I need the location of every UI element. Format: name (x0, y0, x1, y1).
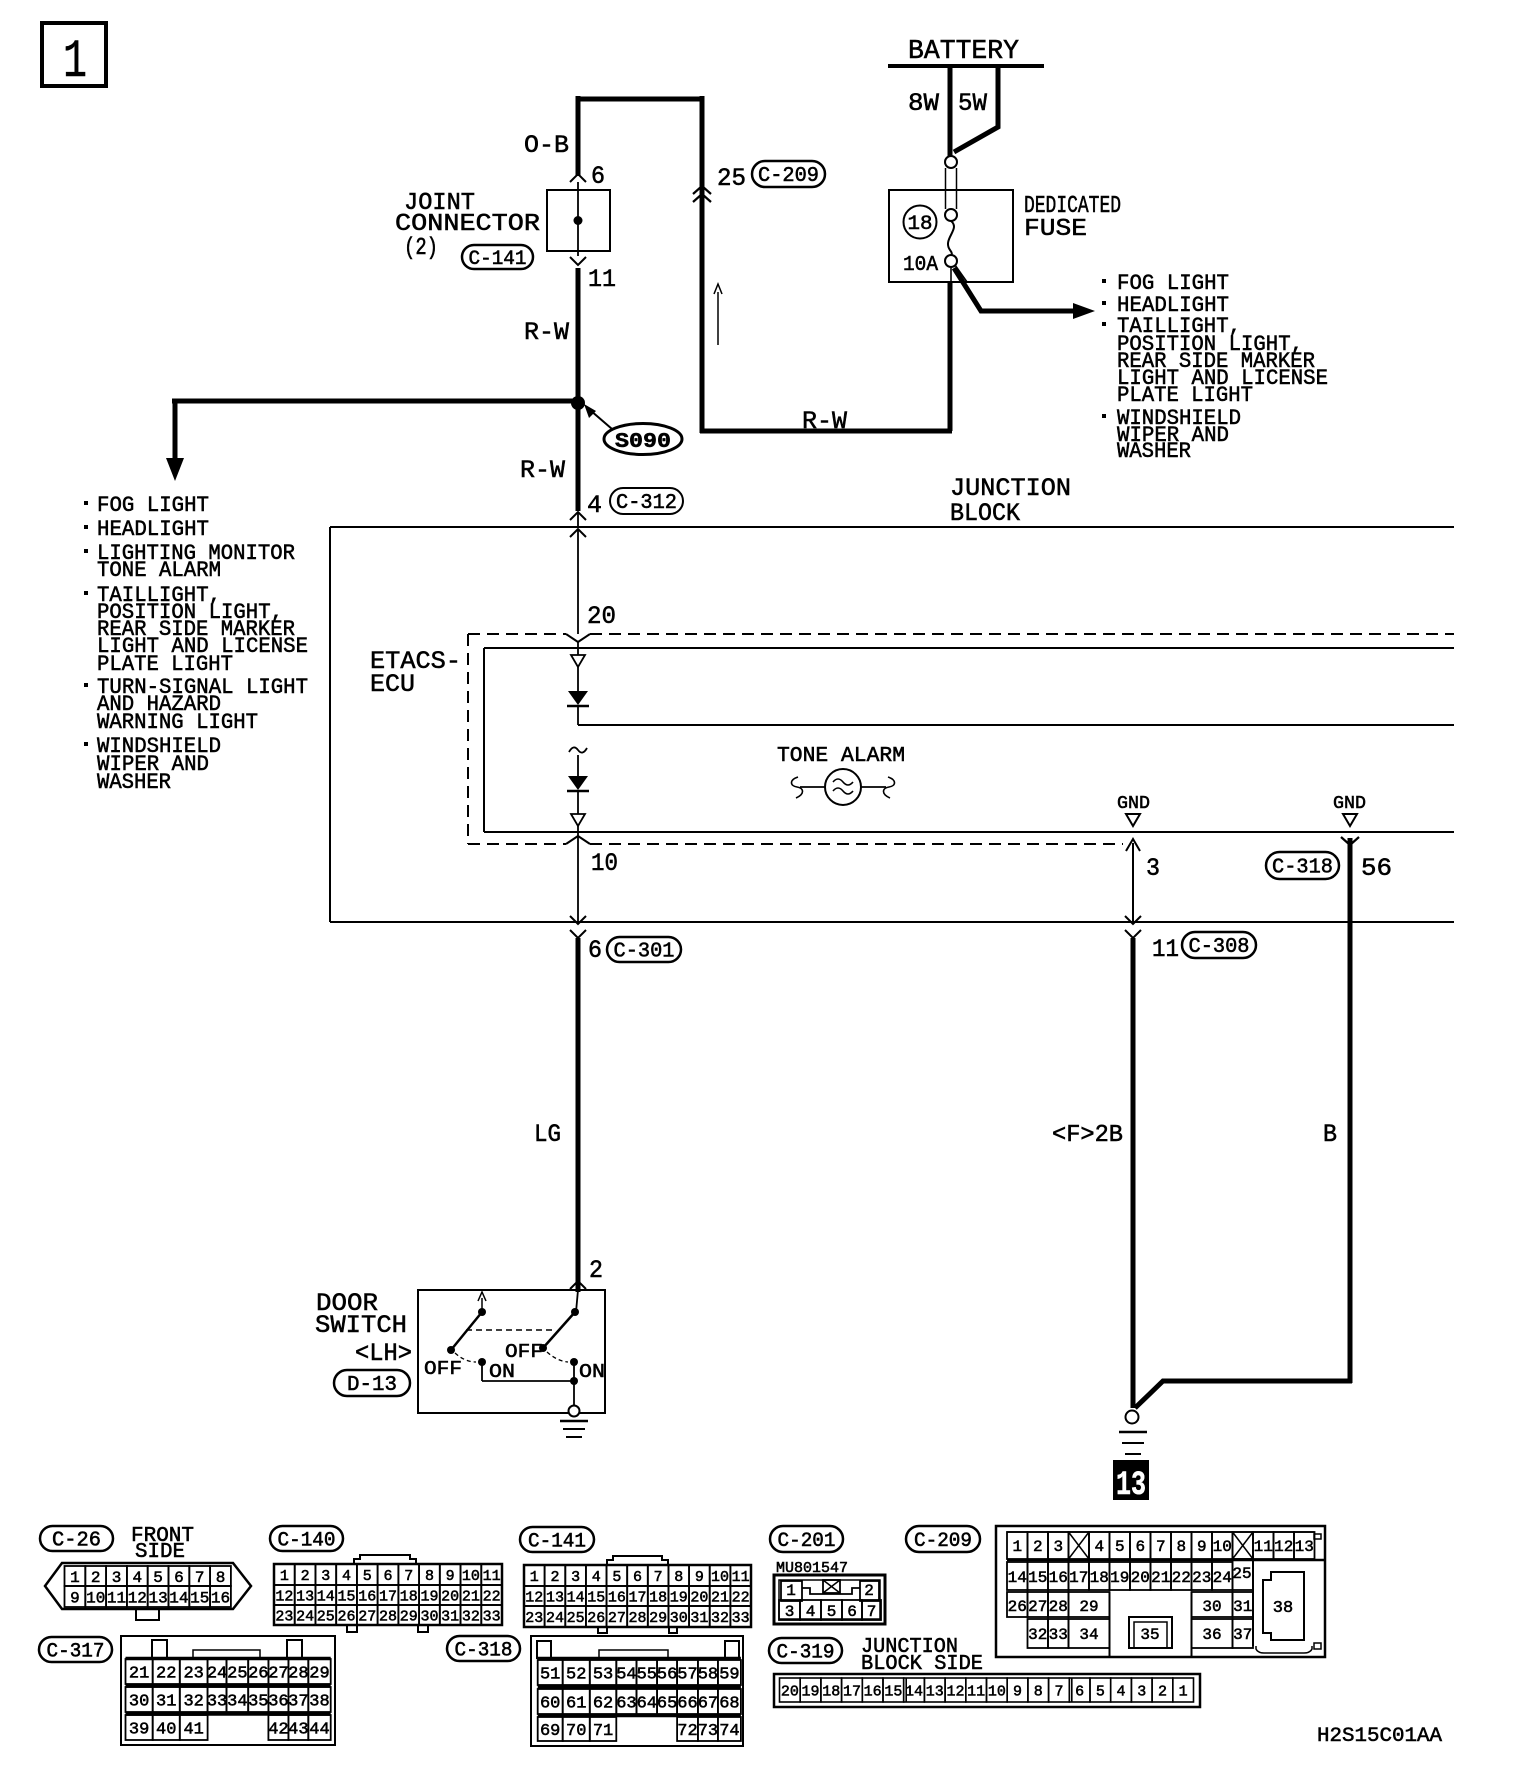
svg-text:6: 6 (633, 1569, 642, 1586)
svg-text:13: 13 (1116, 1467, 1146, 1505)
svg-text:29: 29 (649, 1610, 667, 1627)
svg-text:56: 56 (657, 1666, 677, 1685)
svg-text:14: 14 (317, 1588, 335, 1605)
svg-text:32: 32 (711, 1610, 729, 1627)
door switch contact arm 1 (424, 1292, 515, 1383)
connector capsule D-13 (334, 1370, 410, 1396)
svg-text:BLOCK SIDE: BLOCK SIDE (861, 1653, 983, 1676)
svg-text:11: 11 (588, 265, 616, 294)
svg-text:23: 23 (525, 1610, 543, 1627)
svg-text:16: 16 (1049, 1569, 1068, 1587)
svg-text:9: 9 (695, 1569, 704, 1586)
svg-text:12: 12 (128, 1589, 147, 1607)
svg-text:21: 21 (129, 1665, 149, 1684)
ground (door switch) (560, 1421, 588, 1437)
svg-text:22: 22 (483, 1588, 501, 1605)
wire pin 3 to C-308 (1126, 839, 1160, 922)
svg-text:67: 67 (698, 1695, 718, 1714)
svg-text:GND: GND (1117, 794, 1150, 814)
svg-text:55: 55 (637, 1666, 657, 1685)
svg-text:16: 16 (358, 1588, 376, 1605)
GND pin (C-308 side) (1117, 794, 1150, 826)
svg-text:12: 12 (1274, 1538, 1293, 1556)
svg-text:13: 13 (1295, 1538, 1314, 1556)
svg-text:43: 43 (288, 1721, 308, 1740)
svg-text:4: 4 (587, 491, 602, 520)
svg-text:3: 3 (1146, 854, 1160, 883)
wire to diode D2 (577, 755, 579, 776)
current direction arrow up (714, 284, 722, 345)
svg-text:26: 26 (587, 1610, 605, 1627)
svg-text:11: 11 (732, 1569, 750, 1586)
svg-text:8: 8 (425, 1568, 434, 1585)
ECU output bus line (578, 724, 1454, 726)
svg-text:23: 23 (275, 1608, 293, 1625)
svg-text:C-318: C-318 (1272, 857, 1333, 880)
connector capsule C-141 top (462, 245, 533, 269)
connector C-319 junction block side (769, 1636, 1200, 1707)
svg-text:31: 31 (441, 1608, 459, 1625)
svg-text:18: 18 (400, 1588, 418, 1605)
arrow from fuse to taillight loads (954, 265, 1095, 319)
svg-text:R-W: R-W (524, 318, 569, 347)
svg-text:19: 19 (1110, 1569, 1129, 1587)
svg-text:56: 56 (1361, 854, 1392, 883)
svg-text:PLATE LIGHT: PLATE LIGHT (97, 652, 233, 677)
wire 56 B (1135, 837, 1392, 1408)
door switch common wire (482, 1362, 580, 1417)
svg-text:22: 22 (156, 1665, 176, 1684)
pin 4 crossing marks (570, 512, 586, 537)
svg-text:1: 1 (786, 1582, 796, 1600)
svg-text:HEADLIGHT: HEADLIGHT (97, 517, 209, 542)
svg-text:54: 54 (616, 1666, 636, 1685)
svg-text:31: 31 (156, 1693, 176, 1712)
svg-text:34: 34 (227, 1693, 247, 1712)
diode D1 (567, 691, 589, 706)
svg-text:31: 31 (690, 1610, 708, 1627)
wire pin20 into ECU (577, 642, 579, 655)
svg-text:3: 3 (785, 1603, 795, 1621)
ETACS-ECU dashed box (370, 634, 1454, 844)
svg-text:9: 9 (1013, 1683, 1022, 1700)
svg-text:8W: 8W (908, 89, 939, 118)
svg-text:19: 19 (420, 1588, 438, 1605)
wire (F)2B (1052, 938, 1133, 1408)
connector capsule C-318 mid (1266, 852, 1339, 879)
svg-text:6: 6 (1075, 1683, 1084, 1700)
svg-text:72: 72 (677, 1722, 697, 1741)
svg-text:(2): (2) (404, 235, 438, 262)
svg-text:1: 1 (70, 1569, 80, 1587)
svg-text:C-141: C-141 (528, 1530, 586, 1553)
svg-text:37: 37 (288, 1693, 308, 1712)
svg-text:14: 14 (567, 1589, 585, 1606)
svg-text:16: 16 (211, 1589, 230, 1607)
svg-text:20: 20 (781, 1683, 799, 1700)
junction block box (330, 474, 1454, 922)
input contact triangle (571, 655, 585, 667)
svg-text:24: 24 (207, 1665, 227, 1684)
svg-text:3: 3 (571, 1569, 580, 1586)
GND pin (C-318 side) (1333, 794, 1366, 826)
wire R-W horizontal y431 (700, 407, 952, 436)
svg-text:29: 29 (400, 1608, 418, 1625)
svg-text:6: 6 (847, 1603, 857, 1621)
svg-text:C-312: C-312 (616, 492, 677, 515)
svg-text:6: 6 (1135, 1538, 1145, 1556)
tone alarm (777, 745, 905, 805)
svg-text:16: 16 (608, 1589, 626, 1606)
svg-text:R-W: R-W (520, 456, 565, 485)
svg-text:C-318: C-318 (455, 1639, 513, 1662)
svg-text:23: 23 (1192, 1569, 1211, 1587)
svg-text:3: 3 (112, 1569, 122, 1587)
svg-text:30: 30 (670, 1610, 688, 1627)
svg-text:68: 68 (719, 1695, 739, 1714)
wire 8W battery lead (908, 66, 950, 156)
svg-text:62: 62 (593, 1695, 613, 1714)
connector capsule C-312 (610, 488, 683, 514)
svg-text:53: 53 (593, 1666, 613, 1685)
svg-text:20: 20 (690, 1589, 708, 1606)
connector capsule C-209 top (752, 161, 825, 187)
svg-text:4: 4 (592, 1569, 601, 1586)
svg-text:59: 59 (719, 1666, 739, 1685)
svg-text:28: 28 (288, 1665, 308, 1684)
svg-text:52: 52 (566, 1666, 586, 1685)
svg-text:13: 13 (296, 1588, 314, 1605)
svg-text:17: 17 (379, 1588, 397, 1605)
wire to diode D1 (577, 667, 579, 691)
wire to pin 10 (577, 826, 579, 922)
svg-text:33: 33 (732, 1610, 750, 1627)
diode D2 (567, 776, 589, 791)
svg-text:1: 1 (530, 1569, 539, 1586)
svg-text:35: 35 (248, 1693, 268, 1712)
svg-text:2: 2 (589, 1256, 603, 1285)
svg-text:66: 66 (677, 1695, 697, 1714)
svg-text:20: 20 (587, 602, 616, 631)
svg-text:11: 11 (483, 1568, 501, 1585)
svg-text:18: 18 (649, 1589, 667, 1606)
svg-text:R-W: R-W (802, 407, 847, 436)
door switch (LH) D-13 (315, 1289, 605, 1413)
connector C-317 (39, 1636, 335, 1745)
svg-text:6: 6 (588, 936, 602, 965)
connector C-26 front side (40, 1525, 251, 1620)
svg-text:O-B: O-B (524, 131, 569, 160)
svg-text:19: 19 (670, 1589, 688, 1606)
pin 20 socket notch (566, 634, 590, 642)
svg-text:B: B (1323, 1120, 1337, 1149)
wire 25 C-209 vertical x702 (693, 96, 746, 433)
pin 6 C-301 crossing (570, 916, 602, 965)
svg-text:WARNING LIGHT: WARNING LIGHT (97, 710, 258, 735)
svg-text:7: 7 (867, 1603, 877, 1621)
svg-text:25: 25 (717, 164, 746, 193)
joint connector (2) C-141 (395, 182, 610, 262)
svg-text:13: 13 (926, 1683, 944, 1700)
svg-text:37: 37 (1233, 1626, 1252, 1644)
svg-text:51: 51 (540, 1666, 560, 1685)
svg-text:11: 11 (1152, 935, 1179, 964)
svg-text:20: 20 (1131, 1569, 1150, 1587)
svg-text:8: 8 (216, 1569, 226, 1587)
svg-text:3: 3 (321, 1568, 330, 1585)
svg-text:LG: LG (534, 1120, 561, 1149)
left load list (84, 493, 308, 795)
svg-text:25: 25 (317, 1608, 335, 1625)
svg-text:58: 58 (698, 1666, 718, 1685)
svg-text:29: 29 (1079, 1598, 1098, 1616)
svg-text:33: 33 (483, 1608, 501, 1625)
svg-text:8: 8 (1176, 1538, 1186, 1556)
svg-text:74: 74 (719, 1722, 739, 1741)
svg-text:7: 7 (1054, 1683, 1063, 1700)
wire pin4 to ETACS pin 20 (578, 529, 616, 634)
connector C-209 pinout (906, 1526, 1325, 1657)
svg-text:ECU: ECU (370, 670, 415, 699)
output contact triangle (571, 814, 585, 826)
svg-text:28: 28 (628, 1610, 646, 1627)
svg-text:CONNECTOR: CONNECTOR (395, 211, 540, 238)
svg-text:2: 2 (1033, 1538, 1043, 1556)
svg-text:14: 14 (1008, 1569, 1027, 1587)
connector capsule C-301 (607, 937, 681, 962)
svg-text:25: 25 (1232, 1565, 1251, 1583)
svg-text:15: 15 (884, 1683, 902, 1700)
svg-text:4: 4 (806, 1603, 816, 1621)
ground point 13 black box (1113, 1460, 1149, 1505)
svg-text:36: 36 (1202, 1626, 1221, 1644)
svg-text:27: 27 (358, 1608, 376, 1625)
svg-text:12: 12 (946, 1683, 964, 1700)
wire R-W S090 to junction block pin 4 (520, 403, 602, 520)
svg-text:13: 13 (148, 1589, 167, 1607)
svg-text:26: 26 (248, 1665, 268, 1684)
svg-text:32: 32 (183, 1693, 203, 1712)
svg-text:18: 18 (822, 1683, 840, 1700)
svg-text:1: 1 (1179, 1683, 1188, 1700)
connector C-318 pinout (447, 1636, 743, 1746)
svg-text:30: 30 (420, 1608, 438, 1625)
svg-text:14: 14 (905, 1683, 923, 1700)
wire LG (534, 938, 603, 1292)
svg-text:1: 1 (280, 1568, 289, 1585)
svg-text:OFF: OFF (505, 1341, 543, 1363)
svg-text:TONE ALARM: TONE ALARM (777, 745, 905, 768)
pin 11 of joint connector (570, 257, 616, 294)
svg-text:17: 17 (843, 1683, 861, 1700)
svg-text:15: 15 (338, 1588, 356, 1605)
svg-text:OFF: OFF (424, 1358, 462, 1380)
svg-text:WASHER: WASHER (1117, 439, 1191, 464)
svg-text:31: 31 (1233, 1598, 1252, 1616)
wire diode D1 to bus (577, 706, 579, 725)
wire R-W fuse to junction (vertical x950) (950, 267, 952, 283)
connector C-140 (270, 1526, 502, 1632)
svg-text:4: 4 (1094, 1538, 1104, 1556)
svg-text:30: 30 (129, 1693, 149, 1712)
break squiggle (569, 747, 587, 752)
svg-text:21: 21 (462, 1588, 480, 1605)
svg-text:38: 38 (309, 1693, 329, 1712)
svg-text:69: 69 (540, 1722, 560, 1741)
svg-text:4: 4 (342, 1568, 351, 1585)
svg-text:C-141: C-141 (469, 248, 527, 271)
svg-text:7: 7 (1156, 1538, 1166, 1556)
svg-text:63: 63 (616, 1695, 636, 1714)
svg-text:1: 1 (63, 32, 87, 93)
connector C-141 pinout (520, 1527, 751, 1633)
svg-text:32: 32 (462, 1608, 480, 1625)
svg-text:24: 24 (1213, 1569, 1232, 1587)
svg-text:21: 21 (1151, 1569, 1170, 1587)
svg-text:10: 10 (462, 1568, 480, 1585)
svg-text:C-140: C-140 (278, 1529, 336, 1552)
svg-text:17: 17 (628, 1589, 646, 1606)
page number box 1 (42, 23, 106, 93)
svg-text:<F>2B: <F>2B (1052, 1122, 1123, 1149)
wire top horizontal y99 (576, 97, 704, 102)
svg-text:40: 40 (156, 1721, 176, 1740)
svg-text:2: 2 (301, 1568, 310, 1585)
svg-text:PLATE LIGHT: PLATE LIGHT (1117, 383, 1253, 408)
svg-text:10: 10 (711, 1569, 729, 1586)
svg-text:5: 5 (1115, 1538, 1125, 1556)
svg-text:7: 7 (404, 1568, 413, 1585)
svg-text:ON: ON (579, 1361, 605, 1383)
svg-text:21: 21 (711, 1589, 729, 1606)
svg-text:23: 23 (183, 1665, 203, 1684)
right load list (1102, 271, 1328, 464)
svg-text:60: 60 (540, 1695, 560, 1714)
svg-text:26: 26 (1008, 1598, 1027, 1616)
svg-text:25: 25 (227, 1665, 247, 1684)
connector capsule C-308 (1182, 932, 1256, 958)
svg-text:24: 24 (296, 1608, 314, 1625)
branch arrow to left loads (166, 401, 578, 481)
svg-text:6: 6 (591, 162, 605, 191)
svg-text:11: 11 (107, 1589, 126, 1607)
svg-text:9: 9 (70, 1589, 80, 1607)
svg-text:BLOCK: BLOCK (950, 499, 1020, 528)
mechanical link dashed (466, 1329, 556, 1331)
svg-text:6: 6 (383, 1568, 392, 1585)
wire O-B (524, 96, 605, 191)
svg-text:10: 10 (988, 1683, 1006, 1700)
connector C-201 (770, 1526, 885, 1624)
svg-text:4: 4 (132, 1569, 142, 1587)
svg-text:C-26: C-26 (52, 1530, 101, 1553)
svg-text:C-201: C-201 (778, 1530, 836, 1553)
svg-text:4: 4 (1117, 1683, 1126, 1700)
svg-text:17: 17 (1069, 1569, 1088, 1587)
svg-text:5: 5 (612, 1569, 621, 1586)
svg-text:18: 18 (908, 213, 933, 236)
svg-text:FUSE: FUSE (1024, 216, 1087, 243)
svg-text:20: 20 (441, 1588, 459, 1605)
splice node S090 (571, 396, 612, 429)
svg-text:36: 36 (268, 1693, 288, 1712)
svg-text:13: 13 (546, 1589, 564, 1606)
svg-text:12: 12 (525, 1589, 543, 1606)
svg-text:2: 2 (1158, 1683, 1167, 1700)
svg-text:ON: ON (489, 1361, 515, 1383)
svg-text:H2S15C01AA: H2S15C01AA (1317, 1725, 1442, 1748)
svg-text:11: 11 (967, 1683, 985, 1700)
dedicated fuse 18 (10A) (889, 156, 1121, 282)
svg-text:9: 9 (1197, 1538, 1207, 1556)
svg-text:26: 26 (338, 1608, 356, 1625)
svg-text:33: 33 (1049, 1626, 1068, 1644)
svg-text:GND: GND (1333, 794, 1366, 814)
svg-text:SIDE: SIDE (135, 1541, 185, 1564)
svg-text:12: 12 (275, 1588, 293, 1605)
svg-text:15: 15 (587, 1589, 605, 1606)
svg-text:71: 71 (593, 1722, 613, 1741)
svg-text:73: 73 (698, 1722, 718, 1741)
svg-text:2: 2 (550, 1569, 559, 1586)
wire R-W joint connector to S090 (524, 268, 578, 403)
wire diode D2 to output contact (577, 791, 579, 814)
svg-text:70: 70 (566, 1722, 586, 1741)
svg-text:WASHER: WASHER (97, 770, 171, 795)
battery (888, 37, 1044, 67)
svg-text:7: 7 (195, 1569, 205, 1587)
svg-text:FOG LIGHT: FOG LIGHT (97, 493, 209, 518)
svg-text:C-301: C-301 (614, 941, 675, 964)
svg-text:24: 24 (546, 1610, 564, 1627)
svg-text:28: 28 (379, 1608, 397, 1625)
svg-text:27: 27 (268, 1665, 288, 1684)
svg-text:32: 32 (1028, 1626, 1047, 1644)
svg-text:C-308: C-308 (1189, 936, 1250, 959)
svg-text:5: 5 (827, 1603, 837, 1621)
svg-text:3: 3 (1137, 1683, 1146, 1700)
pin 10 socket notch (566, 836, 590, 844)
ETACS inner box (484, 648, 1454, 832)
svg-text:SWITCH: SWITCH (315, 1311, 407, 1340)
svg-text:2: 2 (864, 1582, 874, 1600)
svg-text:<LH>: <LH> (355, 1339, 412, 1368)
svg-text:65: 65 (657, 1695, 677, 1714)
svg-text:15: 15 (1028, 1569, 1047, 1587)
svg-text:25: 25 (567, 1610, 585, 1627)
svg-text:9: 9 (446, 1568, 455, 1585)
svg-text:5: 5 (153, 1569, 163, 1587)
svg-text:22: 22 (1172, 1569, 1191, 1587)
svg-text:5: 5 (363, 1568, 372, 1585)
svg-text:27: 27 (1028, 1598, 1047, 1616)
svg-text:34: 34 (1079, 1626, 1098, 1644)
svg-text:3: 3 (1053, 1538, 1063, 1556)
svg-text:5W: 5W (958, 89, 987, 118)
svg-text:8: 8 (674, 1569, 683, 1586)
svg-text:8: 8 (1034, 1683, 1043, 1700)
svg-text:61: 61 (566, 1695, 586, 1714)
svg-text:30: 30 (1202, 1598, 1221, 1616)
svg-text:10A: 10A (903, 254, 938, 277)
svg-text:1: 1 (1012, 1538, 1022, 1556)
svg-text:35: 35 (1140, 1626, 1159, 1644)
svg-text:19: 19 (802, 1683, 820, 1700)
door switch contact arm 2 (505, 1290, 605, 1383)
svg-text:44: 44 (309, 1721, 329, 1740)
svg-text:16: 16 (864, 1683, 882, 1700)
svg-text:D-13: D-13 (347, 1374, 397, 1397)
